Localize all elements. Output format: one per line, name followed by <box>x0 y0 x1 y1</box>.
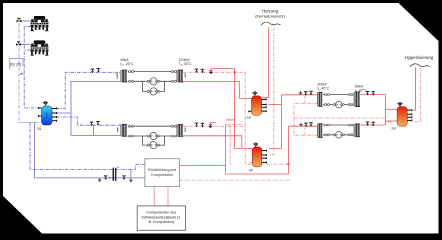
svg-text:≪: ≪ <box>20 71 24 76</box>
heat exchanger W4 <box>176 124 183 137</box>
instrument T on blue row1 <box>91 69 95 73</box>
wire: red pump bypass lower <box>211 123 216 125</box>
wire: black loop2 bypass <box>143 136 165 145</box>
svg-text:SP: SP <box>249 169 254 173</box>
wire: red dash top row HX2 to down-leg <box>183 71 245 73</box>
svg-text:Rückkühlung aus: Rückkühlung aus <box>148 168 176 172</box>
wire: red solid HX2b bottom <box>183 136 242 149</box>
heat exchanger W1 <box>120 70 127 83</box>
wire: heating riser dash-dot <box>269 28 274 155</box>
node flanges HX2b left <box>171 125 173 127</box>
wire: vessel to HX1 top (blue dash-dot) <box>57 72 121 108</box>
instrument T blue rail 2 <box>122 175 126 179</box>
wire: red right vertical x=281.5 <box>269 95 281 149</box>
fan P4 <box>150 142 157 149</box>
instrument T on blue row2 <box>90 122 94 126</box>
svg-text:B1: B1 <box>38 127 42 131</box>
wire: red dash drop below instruments loop2 <box>304 127 306 135</box>
red junction dot on rail <box>109 177 111 179</box>
heat exchanger W3 <box>120 124 127 137</box>
wire: vessel3 to hygiene riser solid <box>413 68 415 111</box>
fan P5 <box>335 101 342 108</box>
pins SP1 right <box>262 98 267 100</box>
storage vessel SP3 <box>397 107 407 127</box>
wire: vessel2 bottom stub to rail <box>250 162 253 164</box>
red junction dot at 234.5,72.2 <box>234 71 236 73</box>
wire: vessel to HX0b top (blue dash-dot) <box>57 117 121 125</box>
wire: black right loop2 lines <box>323 124 354 126</box>
node flanges HX2 left <box>171 71 173 73</box>
valve V2 <box>16 41 21 46</box>
wire: red dash below vessel3 <box>386 118 392 126</box>
relief on SP1 <box>253 92 257 97</box>
wire: red right vertical x=288.4 <box>287 126 289 174</box>
wire: red dash HXr2 bottom return <box>294 118 317 135</box>
node flanges fan3 sides <box>147 135 149 137</box>
node flanges fan1 sides <box>147 80 149 82</box>
wire: red supply to HXr2 top <box>288 125 317 127</box>
storage vessel SP2 <box>252 147 261 167</box>
heating header squiggle <box>261 22 281 25</box>
heat exchanger W2 <box>176 70 183 83</box>
wire: vessel down long solid to HX0b bottom <box>71 113 121 135</box>
svg-text:[0]: [0] <box>10 62 14 67</box>
wire: red dash HXr1 bottom return <box>294 104 386 118</box>
pins SP3 right <box>407 109 412 111</box>
wire: suction line valves to compressors (blue dash-dot) <box>18 23 20 123</box>
wire: black right loop1 lines <box>323 94 354 96</box>
wire: junction vertical x=93.6 between blue rows <box>93 125 95 135</box>
fan P2 <box>150 88 157 95</box>
wire: vessel3 left port <box>386 108 398 110</box>
box Rueckkuehlung <box>145 159 180 187</box>
svg-text:Hygienisierung: Hygienisierung <box>405 55 434 60</box>
fan P6 <box>335 131 342 138</box>
fan P3 <box>150 132 157 139</box>
relief on SP3 <box>398 102 402 107</box>
wire: valve2 to compressor 2 <box>19 44 31 46</box>
svg-text:SP: SP <box>247 116 252 120</box>
node flanges fan2 sides <box>147 90 149 92</box>
tiny rotated tag HX2 <box>185 73 186 77</box>
accumulator vessel B1 (blue) <box>42 106 53 125</box>
ground at junction x=130.9 <box>129 178 133 182</box>
node flanges fan4 sides <box>147 144 149 146</box>
node flanges beside fan P6 <box>333 134 335 136</box>
wire: red vertical x=225.6 upper extension <box>225 125 227 166</box>
heat exchanger W6 <box>354 92 360 107</box>
pins SP2 right <box>262 150 267 152</box>
svg-text:B. Kompressor): B. Kompressor) <box>149 220 175 224</box>
hygiene header squiggle <box>410 64 430 67</box>
svg-text:Kühlwasserkreislaufs (z.: Kühlwasserkreislaufs (z. <box>142 215 182 219</box>
node flanges right loop1 <box>324 94 326 96</box>
instrument T blue rail <box>104 175 108 179</box>
svg-text:[0]: [0] <box>17 62 21 67</box>
fan P1 <box>150 78 157 85</box>
wire: junction vertical x=130.9 lower rails <box>130 169 132 178</box>
heat exchanger W7 <box>317 123 323 138</box>
pins B1 right <box>52 108 57 110</box>
red junction dot at 288.4,164.1 <box>288 163 290 165</box>
node flanges beside fan P5 <box>333 104 335 106</box>
small gain block <box>20 71 24 76</box>
instruments on red supply right loop2 <box>299 123 303 127</box>
wire: black loop2 top line HX0b-HX2b <box>128 125 177 127</box>
relief on B1 <box>43 102 47 107</box>
wire: red after HX4 <box>361 124 386 126</box>
wire: black loop1 top line HX1-HX2 <box>128 71 177 73</box>
instruments after HX3 <box>366 91 370 95</box>
heat exchanger W5 <box>317 92 323 107</box>
tiny rotated tag HX2b <box>185 128 186 132</box>
pump triangle red row2 <box>209 124 213 128</box>
node flanges HX1 right <box>129 71 131 73</box>
wire: red pump bypass solid <box>211 69 235 71</box>
wire: black loop1 bottom line <box>128 80 177 82</box>
svg-text:Komponenten des: Komponenten des <box>146 211 176 215</box>
wire: hygiene riser dash-dot <box>413 68 421 122</box>
compressor M2 <box>31 40 49 55</box>
expansion device bars on blue rail <box>113 167 119 181</box>
svg-text:(Fernwärmenetz): (Fernwärmenetz) <box>255 13 285 18</box>
tiny rotated tag HX1 <box>117 73 118 79</box>
wire: box1 right dash out <box>179 179 290 181</box>
wire: compressor discharge header (blue dash-dot) <box>24 27 41 108</box>
wire: red solid HX2 bottom to vessel1 <box>183 82 252 99</box>
node flanges HX0b right <box>129 125 131 127</box>
wire: red dash vertical x=245.2 down to rail <box>245 72 288 164</box>
wire: box1 to box2 vertical reds <box>154 187 168 206</box>
instrument T on red row2 <box>195 123 199 127</box>
wire: red dash drop below instruments loop1 <box>304 96 306 104</box>
wire: box1 right solid out <box>179 166 288 174</box>
heat exchanger W8 <box>354 123 360 137</box>
wire: red dash lower row from HX2b <box>183 125 245 127</box>
wire: red long vertical x=234.5 to vessel2 <box>235 69 253 149</box>
wire: heating riser solid <box>262 28 269 98</box>
wire: valve1 to compressor 1 <box>19 20 31 22</box>
wire: red short y=119.9 <box>226 119 235 121</box>
relief on SP2 <box>254 143 258 148</box>
pump triangle red row1 <box>209 70 213 74</box>
ground on blue rail <box>98 178 102 182</box>
storage vessel SP1 <box>252 96 262 115</box>
wire: vessel bottom to lower rail (dash-dot) <box>30 123 145 170</box>
setpoint block [0][0] <box>10 59 24 70</box>
wire: left light-blue return at y=122.5 <box>19 122 39 124</box>
wire: red dash vertical x=230.1 <box>229 125 231 165</box>
wire: red dash below vessel1 <box>226 124 245 126</box>
wire: vessel to HX1 bottom (blue solid) <box>57 82 121 113</box>
wire: vessel1 stub2 to right main vertical <box>268 104 281 106</box>
instrument T on red row1 <box>195 69 199 73</box>
wire: black loop1 bypass <box>143 81 165 91</box>
valve V1 <box>17 18 22 23</box>
pin SP1 left <box>248 110 251 112</box>
wire: compressor 2 discharge <box>24 49 30 51</box>
svg-text:SP: SP <box>392 127 397 131</box>
node flanges right loop2 <box>324 124 326 126</box>
wire: red supply to HXr1 top <box>282 94 318 96</box>
box Komponenten <box>137 206 185 230</box>
wire: vessel3 lower-left port <box>386 120 398 122</box>
tiny rotated tag HX0b <box>117 127 118 131</box>
compressor M1 <box>31 16 49 31</box>
wire: vessel bottom to lower rail (solid) <box>35 123 145 178</box>
instruments after HX4 <box>366 122 370 126</box>
instruments on red supply right loop1 <box>299 91 303 95</box>
svg-text:Kompression: Kompression <box>151 173 173 177</box>
wire: black loop2 bottom line <box>128 135 177 137</box>
wire: red after HX3 to vessel3 <box>361 95 386 126</box>
flange circles on black loops <box>129 71 353 147</box>
pins B1 left <box>38 107 42 117</box>
